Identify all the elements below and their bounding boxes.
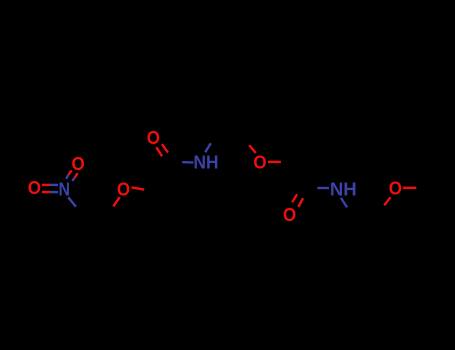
svg-text:O: O <box>72 154 85 174</box>
svg-text:N: N <box>58 179 70 199</box>
svg-text:O: O <box>389 178 402 198</box>
svg-text:O: O <box>28 178 41 198</box>
svg-text:O: O <box>147 128 160 148</box>
svg-text:O: O <box>283 205 296 225</box>
svg-text:NH: NH <box>330 179 357 199</box>
svg-text:O: O <box>253 153 266 173</box>
svg-text:O: O <box>117 179 130 199</box>
svg-text:NH: NH <box>194 153 219 173</box>
